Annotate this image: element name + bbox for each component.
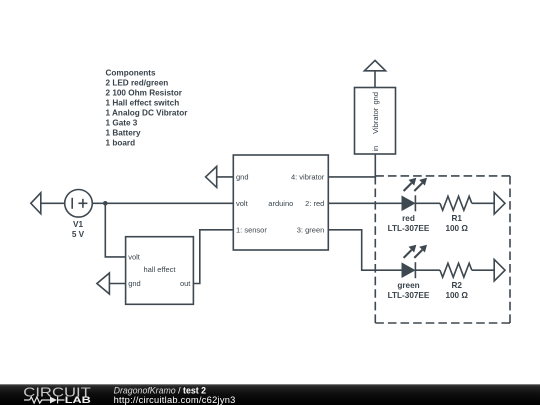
arduino box [233, 155, 328, 250]
flag terminal at arduino gnd [206, 166, 234, 187]
svg-text:volt: volt [128, 253, 141, 262]
svg-text:arduino: arduino [268, 199, 293, 208]
wire R2 to flag [472, 269, 494, 271]
voltage source V1 [65, 190, 93, 218]
LED D2 labels [388, 281, 430, 300]
vibrator box [355, 88, 396, 155]
wire arduino 2:red to LED1 [328, 202, 402, 204]
wire hall out up to sensor [193, 230, 233, 284]
wire V1 to arduino volt [92, 202, 233, 204]
wire junction down [104, 203, 106, 257]
svg-text:5 V: 5 V [72, 230, 85, 239]
LED D2 green [402, 245, 427, 279]
svg-text:R1: R1 [451, 214, 462, 223]
svg-text:2 100 Ohm Resistor: 2 100 Ohm Resistor [106, 88, 183, 97]
wire LED2 to R2 [415, 269, 440, 271]
svg-text:red: red [402, 214, 415, 223]
resistor R1 [440, 196, 472, 210]
svg-text:1 Gate 3: 1 Gate 3 [106, 118, 138, 127]
svg-text:green: green [397, 281, 419, 290]
svg-text:R2: R2 [451, 281, 462, 290]
flag terminal at hall gnd [97, 273, 126, 294]
wire arduino 4:vibrator to vibrator [328, 154, 375, 177]
wire LED1 to R1 [415, 202, 440, 204]
svg-text:100 Ω: 100 Ω [445, 291, 468, 300]
svg-text:LTL-307EE: LTL-307EE [388, 224, 430, 233]
R2 labels [445, 281, 468, 300]
svg-text:gnd: gnd [371, 92, 380, 105]
svg-text:100 Ω: 100 Ω [445, 224, 468, 233]
svg-text:Vibrator: Vibrator [371, 107, 380, 134]
dashed breakout board outline [375, 176, 510, 323]
flag terminal left of V1 [31, 193, 65, 214]
node junction [103, 201, 108, 206]
svg-text:out: out [180, 279, 191, 288]
V1 value label [72, 220, 85, 239]
wire arduino 3:green down and right [328, 230, 402, 270]
flag terminal right of R1 [494, 193, 505, 215]
svg-text:in: in [371, 146, 380, 152]
flag terminal above vibrator [364, 60, 385, 70]
svg-text:2: red: 2: red [305, 199, 324, 208]
svg-text:V1: V1 [73, 220, 83, 229]
wire R1 to flag [472, 202, 494, 204]
svg-text:gnd: gnd [236, 173, 249, 182]
svg-text:http://circuitlab.com/c62jyn3: http://circuitlab.com/c62jyn3 [114, 395, 236, 405]
svg-text:LAB: LAB [65, 395, 91, 405]
wire vibrator gnd up [374, 71, 376, 88]
svg-text:1 Hall effect switch: 1 Hall effect switch [106, 98, 180, 107]
svg-text:1 Battery: 1 Battery [106, 128, 141, 137]
LED D1 red [402, 178, 427, 212]
hall effect box [126, 237, 194, 305]
flag terminal right of R2 [494, 259, 505, 281]
components list annotation [106, 68, 189, 147]
LED D1 labels [388, 214, 430, 233]
svg-text:DragonofKramo / test 2: DragonofKramo / test 2 [114, 385, 207, 395]
svg-text:1: sensor: 1: sensor [236, 225, 267, 234]
svg-text:Components: Components [106, 68, 156, 77]
svg-text:4: vibrator: 4: vibrator [291, 173, 325, 182]
svg-text:3: green: 3: green [297, 226, 325, 235]
resistor R2 [440, 263, 472, 277]
CircuitLab logo circuit line [24, 397, 65, 404]
svg-text:2 LED red/green: 2 LED red/green [106, 78, 169, 87]
wire to hall volt [105, 256, 126, 258]
svg-text:gnd: gnd [128, 279, 141, 288]
R1 labels [445, 214, 468, 233]
svg-text:1 Analog DC Vibrator: 1 Analog DC Vibrator [106, 108, 189, 117]
svg-text:hall effect: hall effect [144, 265, 177, 274]
footer bar [0, 384, 540, 405]
svg-text:volt: volt [236, 199, 249, 208]
svg-text:LTL-307EE: LTL-307EE [388, 291, 430, 300]
svg-text:1 board: 1 board [106, 138, 136, 147]
